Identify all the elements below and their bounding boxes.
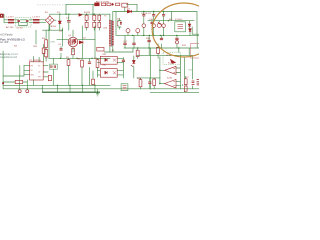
svg-text:C1 X2: C1 X2 (17, 28, 24, 30)
svg-text:made/forum.sch: made/forum.sch (0, 56, 18, 59)
svg-text:DRV: DRV (51, 41, 56, 43)
svg-text:AC 250: AC 250 (6, 26, 14, 29)
svg-text:L1 4m7: L1 4m7 (7, 17, 15, 19)
svg-text:+ICl Family: +ICl Family (0, 34, 13, 37)
svg-text:ref: JKP: ref: JKP (0, 41, 9, 44)
svg-text:K1 RLY: K1 RLY (175, 19, 183, 21)
svg-text:IC1 HV9910: IC1 HV9910 (29, 60, 42, 62)
svg-text:IC2B: IC2B (167, 77, 172, 79)
svg-text:OK2: OK2 (102, 64, 107, 66)
svg-text:B250: B250 (51, 26, 57, 28)
svg-text:OUT: OUT (189, 70, 194, 72)
svg-text:L2 4m7: L2 4m7 (33, 17, 41, 19)
svg-text:OK1: OK1 (102, 54, 107, 56)
svg-text:R1 R2: R1 R2 (84, 12, 91, 14)
svg-text:C7 C8 C9: C7 C8 C9 (141, 13, 151, 15)
svg-text:IC2A: IC2A (168, 61, 173, 64)
svg-text:PW: PW (38, 76, 41, 78)
svg-text:R5 C4 D3 R6: R5 C4 D3 R6 (96, 1, 110, 3)
